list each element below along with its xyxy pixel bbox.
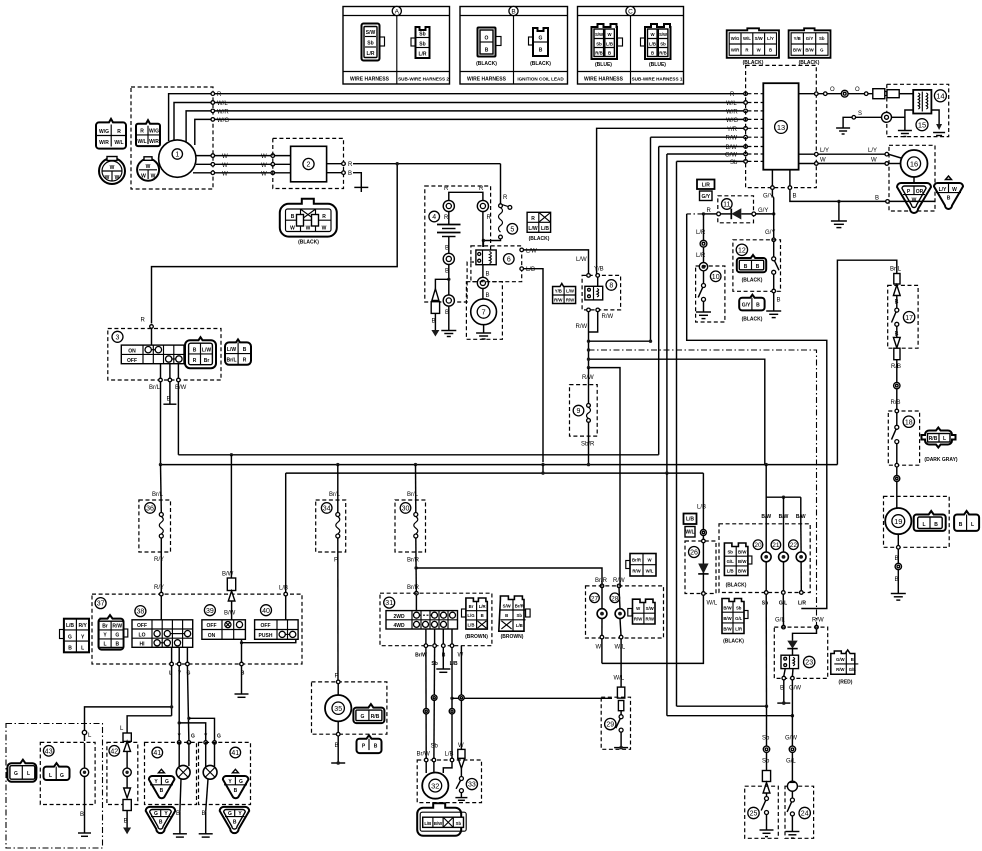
svg-text:B/W: B/W <box>793 47 802 52</box>
CDI output W to headlight <box>799 158 889 166</box>
svg-text:R: R <box>243 358 247 364</box>
headlight 41 left dashed enclosure <box>145 742 197 804</box>
svg-text:Sb: Sb <box>730 160 738 166</box>
svg-text:W: W <box>105 175 110 181</box>
svg-text:R/B: R/B <box>371 714 380 720</box>
svg-text:Y/R: Y/R <box>727 127 738 133</box>
svg-text:Br/R: Br/R <box>632 558 642 563</box>
svg-text:32: 32 <box>431 781 439 790</box>
wire B/W link to brake light feed <box>589 359 765 464</box>
fuse 36 (headlights) dashed enclosure <box>139 500 171 552</box>
speed sensor 32 <box>422 758 454 799</box>
svg-text:(BROWN): (BROWN) <box>501 634 524 640</box>
svg-text:Sb: Sb <box>660 42 666 47</box>
svg-text:G: G <box>217 734 221 740</box>
svg-text:L/Y: L/Y <box>767 36 774 41</box>
fuse 9 <box>573 368 595 465</box>
svg-text:L/B: L/B <box>727 569 734 574</box>
svg-text:B: B <box>777 298 781 304</box>
brake light relay 23 dashed enclosure <box>774 627 827 678</box>
coil secondary lead arrow to ground <box>931 110 945 136</box>
switch 12 <box>736 244 779 293</box>
wire B/W into CDI <box>659 146 746 148</box>
horn switch 10 dashed enclosure <box>696 266 725 322</box>
wire W/L from magneto <box>174 103 746 141</box>
stacked connector L/R G/Y <box>697 180 715 201</box>
svg-text:W/G: W/G <box>731 36 740 41</box>
svg-text:G: G <box>191 734 195 740</box>
svg-text:17: 17 <box>905 315 913 322</box>
front brake switch 25 <box>748 793 774 837</box>
svg-text:Br/L: Br/L <box>890 267 902 273</box>
svg-text:R/Y: R/Y <box>154 557 164 563</box>
ground symbol starter motor <box>476 333 491 339</box>
wire Br/L riser to lighting switch feed <box>837 260 896 464</box>
svg-text:B: B <box>608 51 611 56</box>
svg-text:W/R: W/R <box>149 139 159 145</box>
svg-text:R: R <box>140 129 144 135</box>
wire G/W riser x667 <box>666 154 668 473</box>
CDI bottom pin G/Y <box>763 170 774 200</box>
wire R battery top link <box>449 192 483 200</box>
svg-text:W: W <box>110 165 115 171</box>
flasher relay 24 dashed enclosure <box>785 786 814 838</box>
svg-text:L/R: L/R <box>735 627 743 632</box>
svg-text:B: B <box>959 522 963 528</box>
svg-text:L/B: L/B <box>516 623 523 628</box>
svg-text:B: B <box>486 272 490 278</box>
fuse on B/W wire above switch 39 <box>222 455 236 620</box>
headlight 16 dashed enclosure <box>889 145 935 211</box>
svg-text:S/W: S/W <box>659 32 668 37</box>
wire W/G from magneto <box>195 119 746 145</box>
bullet connector R starter lead <box>477 200 488 211</box>
svg-text:L/B: L/B <box>649 42 656 47</box>
svg-text:Br: Br <box>469 604 474 609</box>
wire Br/L from switch 3 to fuse bus <box>160 382 162 465</box>
svg-text:R/W: R/W <box>632 569 641 574</box>
fuse 34 (taillight) dashed enclosure <box>316 500 346 552</box>
headlight 41 right dashed enclosure <box>199 742 251 804</box>
brake switch 18 <box>892 409 915 467</box>
svg-text:G/L: G/L <box>735 616 743 621</box>
tail brake light 19 <box>885 508 911 534</box>
wire L from switch 38 to auxiliary light <box>82 666 173 741</box>
svg-text:G/Y: G/Y <box>758 208 768 214</box>
svg-text:29: 29 <box>606 722 614 729</box>
sensor switch 33 <box>455 768 477 800</box>
svg-text:R/W: R/W <box>726 136 738 142</box>
aux light bulb <box>78 743 91 836</box>
wire B to frame ground via fuse <box>435 279 448 288</box>
svg-text:Sb: Sb <box>819 36 825 41</box>
connector 6p (Br L/R / L/G B / L/B x) (BROWN) <box>462 598 489 640</box>
svg-text:21: 21 <box>772 542 780 549</box>
svg-text:B: B <box>445 246 449 252</box>
wire L/B from relay 6 down to bus <box>520 267 543 462</box>
svg-text:G/L: G/L <box>786 759 796 765</box>
svg-text:B/W: B/W <box>224 611 236 617</box>
svg-text:L: L <box>922 522 925 528</box>
svg-text:R/B: R/B <box>891 400 901 406</box>
svg-text:R: R <box>322 214 326 220</box>
wire B/W drop to brake light bulbs <box>761 465 806 522</box>
wire B below switch 12 to ground <box>766 293 781 318</box>
wire B from switch 3 to ground <box>163 382 176 404</box>
mating connector 4p (L/W B / Br/L R) outside switch 3 <box>225 339 251 364</box>
wire R from magneto up <box>169 94 746 141</box>
svg-text:R/W: R/W <box>112 624 122 630</box>
svg-text:R: R <box>141 318 146 324</box>
svg-text:B/W: B/W <box>805 47 814 52</box>
CDI input connector nodes x745.6 <box>744 92 748 163</box>
svg-text:25: 25 <box>750 811 758 818</box>
wire bus B/W y455 <box>178 454 658 456</box>
legend box B connector (ignition coil lead) pins G B (BLACK) <box>529 28 552 67</box>
svg-text:12: 12 <box>738 247 746 254</box>
svg-text:W/R: W/R <box>99 140 109 146</box>
svg-text:(BLACK): (BLACK) <box>530 61 551 67</box>
bullet connector R battery positive <box>443 200 454 211</box>
svg-text:Br/R: Br/R <box>595 578 608 584</box>
fuse 36 <box>145 465 164 593</box>
dashed pin stubs into CDI block <box>747 94 763 162</box>
svg-text:B: B <box>793 194 797 200</box>
svg-text:R/W: R/W <box>554 298 563 303</box>
wire Y to headlights <box>177 666 208 744</box>
svg-text:L/G: L/G <box>467 613 475 618</box>
svg-text:OFF: OFF <box>207 623 217 629</box>
svg-text:L/W: L/W <box>528 226 537 232</box>
node W/R at box edge <box>211 109 215 113</box>
battery 4 plates <box>437 225 461 237</box>
svg-text:W/G: W/G <box>149 129 159 135</box>
svg-text:(BLACK): (BLACK) <box>298 240 319 246</box>
main switch 3 <box>112 331 184 364</box>
svg-text:Y/B: Y/B <box>794 36 801 41</box>
fuse 9 dashed enclosure <box>570 385 598 437</box>
svg-text:Sb: Sb <box>762 601 768 607</box>
svg-text:R/W: R/W <box>576 324 588 330</box>
svg-text:L/W: L/W <box>566 289 575 294</box>
mating triangle connector left (G Y / B) <box>146 807 176 833</box>
svg-text:3: 3 <box>116 334 120 341</box>
svg-text:B: B <box>851 657 854 662</box>
connector 4p (Br/R W / R/W W/L) near indicators <box>626 554 656 577</box>
light switch 38 outputs L Y G <box>169 647 190 676</box>
connector 8p (W/G W/L S/W L/Y / W/R R W B) (BLACK) above CDI <box>727 28 779 66</box>
svg-text:Br: Br <box>102 624 108 630</box>
svg-text:B/W: B/W <box>726 145 738 151</box>
wire W phase 2 <box>196 163 291 165</box>
CDI output O to ignition coil <box>799 87 873 97</box>
svg-text:R/W: R/W <box>566 298 575 303</box>
svg-text:B: B <box>769 47 772 52</box>
svg-text:L: L <box>49 773 52 779</box>
svg-text:B: B <box>895 331 899 337</box>
wire W/R from magneto <box>186 111 746 142</box>
svg-text:L: L <box>103 642 106 648</box>
stacked connector L/B W/L <box>684 514 697 538</box>
svg-text:R: R <box>479 186 484 192</box>
svg-text:Y/B: Y/B <box>594 267 604 273</box>
svg-text:B: B <box>233 820 237 826</box>
bullet pair on Br/L lead <box>893 274 900 296</box>
svg-text:WIRE HARNESS: WIRE HARNESS <box>467 77 507 83</box>
wire Y/R riser from relay 8 to CDI line <box>597 128 746 275</box>
svg-text:L/B: L/B <box>606 42 613 47</box>
wire Sb riser x676 <box>676 161 678 706</box>
brake tail lights 20-22 dashed enclosure <box>719 524 810 593</box>
wire R/W riser x650 <box>650 137 652 341</box>
svg-text:16: 16 <box>910 159 918 168</box>
connector 4p (L/B B/W x Sb) below sensor <box>417 803 466 836</box>
wire from diode to horn button chain <box>687 208 717 216</box>
svg-text:L: L <box>971 522 974 528</box>
svg-text:22: 22 <box>790 542 798 549</box>
svg-text:B: B <box>895 577 899 583</box>
svg-text:B: B <box>348 171 352 177</box>
svg-text:B: B <box>80 812 84 818</box>
CDI magneto 1 <box>159 140 196 177</box>
indicator light 28 <box>610 588 625 639</box>
svg-text:B: B <box>505 613 508 618</box>
diode 11 dashed enclosure <box>718 196 754 223</box>
svg-text:G/Y: G/Y <box>701 194 710 200</box>
svg-text:B: B <box>895 556 899 562</box>
connector (G/Y B) below switch 12 (BLACK) <box>739 295 764 323</box>
wire Sb link from harness riser <box>677 705 769 708</box>
svg-text:B: B <box>202 811 206 817</box>
svg-text:Br/L: Br/L <box>227 358 237 364</box>
svg-text:W/R: W/R <box>726 109 738 115</box>
svg-text:15: 15 <box>918 121 926 130</box>
connector 4p (R W/G W/L W/R) inside magneto box <box>136 120 160 146</box>
headlight triangle connector (P OR / W) <box>897 183 931 213</box>
svg-text:28: 28 <box>611 595 619 602</box>
connector (B B) in switch 12 (BLACK) <box>737 255 766 283</box>
wire from fuse 5 to starter relay chain <box>483 239 500 247</box>
svg-text:L/B: L/B <box>686 517 694 523</box>
svg-text:2: 2 <box>307 162 311 169</box>
svg-text:B: B <box>432 319 436 325</box>
svg-text:R: R <box>707 208 712 214</box>
svg-text:Sb: Sb <box>762 736 770 742</box>
svg-text:L/B: L/B <box>279 586 288 592</box>
indicator bulb 20 <box>753 522 771 591</box>
wire Sb from bulb 20 down <box>765 594 767 706</box>
svg-text:R: R <box>531 216 535 222</box>
CDI magneto unit 1 dashed enclosure <box>131 87 213 189</box>
wire G to headlights <box>187 666 221 744</box>
svg-text:30: 30 <box>402 506 410 513</box>
wire W/L to neutral switch 29 <box>614 639 625 711</box>
svg-text:O: O <box>830 87 835 93</box>
svg-text:Br/L: Br/L <box>407 492 419 498</box>
svg-text:G: G <box>239 779 243 785</box>
svg-text:B: B <box>243 347 247 353</box>
svg-text:W: W <box>146 164 151 170</box>
svg-text:W/L: W/L <box>726 101 737 107</box>
svg-text:G: G <box>68 634 72 640</box>
ground stub on B wire <box>831 200 847 228</box>
svg-text:1: 1 <box>175 152 179 159</box>
wire Br/W to speed sensor <box>417 648 431 759</box>
connector (G R/B) at pilot light <box>353 704 384 723</box>
svg-text:19: 19 <box>894 517 902 526</box>
svg-text:Sb: Sb <box>762 759 770 765</box>
svg-text:ON: ON <box>128 349 136 355</box>
headlight 41 right triangle connector (Y G / B) <box>223 769 249 798</box>
svg-text:B: B <box>651 51 654 56</box>
svg-text:B: B <box>159 820 163 826</box>
svg-text:38: 38 <box>137 609 145 616</box>
svg-text:W: W <box>306 226 311 232</box>
legend box C <box>578 6 684 84</box>
svg-text:W/L: W/L <box>685 530 694 536</box>
wire G/W line y473 <box>286 472 704 474</box>
svg-text:PUSH: PUSH <box>259 633 273 639</box>
svg-text:Br/R: Br/R <box>407 558 420 564</box>
svg-text:2WD: 2WD <box>393 614 405 620</box>
svg-text:5: 5 <box>510 226 514 233</box>
svg-text:L/B: L/B <box>450 661 458 667</box>
connector (R/B L) dark gray <box>922 428 958 464</box>
wire L/B to speed sensor <box>445 648 613 759</box>
svg-text:R/B: R/B <box>891 364 901 370</box>
svg-text:26: 26 <box>690 550 698 557</box>
svg-text:L/Y: L/Y <box>939 187 947 193</box>
selector switch 31 <box>386 595 458 629</box>
mating triangle connector right (G Y / B) <box>220 807 250 833</box>
spark plug 15 <box>836 111 928 134</box>
svg-text:R/B: R/B <box>659 51 666 56</box>
switch 3 output nodes <box>149 364 187 392</box>
svg-text:R/W: R/W <box>602 314 614 320</box>
svg-text:L: L <box>27 771 30 777</box>
svg-text:27: 27 <box>591 595 599 602</box>
svg-text:W/L: W/L <box>615 644 626 650</box>
svg-text:(BLACK): (BLACK) <box>742 316 763 322</box>
wire B from pilot light to ground <box>331 736 345 765</box>
wire L/B drop from line y473 through diode 26 <box>602 473 718 663</box>
svg-text:Sb: Sb <box>517 613 523 618</box>
svg-text:R/Y: R/Y <box>154 585 164 591</box>
tie from relay L/B to lines <box>542 465 544 474</box>
svg-text:W/G: W/G <box>726 118 738 124</box>
svg-text:L/B: L/B <box>697 505 706 511</box>
svg-text:9: 9 <box>577 408 581 415</box>
svg-text:P: P <box>334 558 338 564</box>
headlight 41 left bulb <box>173 742 190 837</box>
ground symbol battery chain <box>441 331 456 337</box>
svg-text:Br/L: Br/L <box>149 385 161 391</box>
svg-text:R: R <box>217 92 222 98</box>
svg-text:Sb: Sb <box>419 42 425 48</box>
selector 31 outputs <box>415 629 458 667</box>
connector 6p (Sb B/W / G/L B/W / L/B B/W) (BLACK) <box>724 543 752 589</box>
connector 4p (R x / L/W L/B) near fuse (BLACK) <box>527 212 551 242</box>
wire G/W lower link <box>667 473 794 717</box>
svg-text:Sb: Sb <box>431 744 439 750</box>
svg-text:13: 13 <box>777 123 785 132</box>
handlebar switch 37 dashed enclosure <box>92 594 302 664</box>
svg-text:R/W: R/W <box>646 617 655 622</box>
svg-text:Sb: Sb <box>727 549 733 554</box>
tail light 42 dashed enclosure <box>107 742 138 804</box>
svg-text:L/R: L/R <box>696 253 706 259</box>
svg-text:Sb/R: Sb/R <box>581 442 595 448</box>
nodes W at rectifier box edge <box>271 154 275 158</box>
svg-text:G/L: G/L <box>849 667 857 672</box>
neutral switch 29 dashed enclosure <box>601 697 630 749</box>
starting circuit cut-off relay 8 dashed enclosure <box>582 275 621 310</box>
svg-text:A: A <box>395 8 400 15</box>
connector 6p (W S/W / R/W L / R/W x) at indicators <box>628 599 655 624</box>
svg-text:W: W <box>222 171 228 177</box>
starter motor 7 dashed enclosure <box>466 282 502 340</box>
svg-text:B/W: B/W <box>723 616 732 621</box>
wire R/B into taillight 19 <box>896 467 898 508</box>
svg-text:R/W: R/W <box>613 578 625 584</box>
wire L/W from relay 6 to relay 8 <box>520 248 589 274</box>
svg-text:41: 41 <box>231 750 239 757</box>
svg-text:L/R: L/R <box>702 182 710 188</box>
wire R/W dashed link to brake relay 23 <box>589 350 817 625</box>
svg-text:(BROWN): (BROWN) <box>465 634 488 640</box>
svg-text:Br: Br <box>204 358 210 364</box>
svg-text:L/W: L/W <box>202 347 211 353</box>
svg-text:G: G <box>154 811 158 817</box>
svg-text:B/W: B/W <box>723 605 732 610</box>
CDI output L/Y to headlight <box>799 148 889 156</box>
svg-text:Br/R: Br/R <box>515 603 525 608</box>
legend box B connector (wire harness) pins O B (BLACK) <box>476 28 501 68</box>
svg-text:(BLACK): (BLACK) <box>723 639 744 645</box>
svg-text:W: W <box>261 154 267 160</box>
svg-text:G/Y: G/Y <box>806 36 814 41</box>
svg-text:B/W: B/W <box>779 514 789 520</box>
svg-text:G/W: G/W <box>789 685 801 691</box>
wire Sb down to brake switch 25 <box>762 706 771 793</box>
legend box A <box>343 6 450 84</box>
CDI unit 13 <box>763 83 798 170</box>
fuse 5 <box>499 204 518 239</box>
switch 39 output B <box>235 639 249 697</box>
ignition coil 14 dashed enclosure <box>887 84 949 136</box>
auxiliary light 43 dashed enclosure <box>40 742 95 804</box>
round connector 3p (W / W W) outside magneto <box>99 157 125 185</box>
wire Sb to speed sensor <box>431 648 439 759</box>
bullet connector B to engine ground <box>443 295 454 306</box>
svg-text:L: L <box>943 436 946 442</box>
svg-text:34: 34 <box>323 506 331 513</box>
legend box B <box>460 6 568 84</box>
svg-text:(BLACK): (BLACK) <box>476 61 497 67</box>
svg-text:L/B: L/B <box>541 226 549 232</box>
svg-text:G/L: G/L <box>727 559 735 564</box>
svg-text:G/Y: G/Y <box>742 302 751 308</box>
horn switch 10 <box>696 271 721 319</box>
node R at box edge <box>211 92 215 96</box>
fuse switch 17 <box>891 296 915 370</box>
svg-text:SUB-WIRE HARNESS 1: SUB-WIRE HARNESS 1 <box>632 77 683 82</box>
svg-text:G/W: G/W <box>836 657 846 662</box>
tail light 42 chain <box>120 726 131 834</box>
starter motor 7 <box>471 299 497 325</box>
svg-text:P: P <box>335 674 339 680</box>
svg-text:L/Y: L/Y <box>820 148 829 154</box>
